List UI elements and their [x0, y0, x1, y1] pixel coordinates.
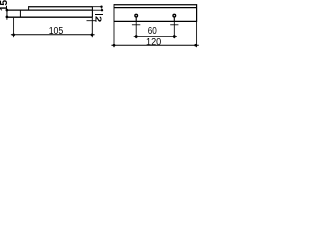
wire: outer rectangle [114, 4, 197, 6]
keyhole 1 [135, 14, 138, 17]
wire: bar top edge [7, 9, 93, 11]
wire: plate step edge [28, 6, 30, 10]
svg-text:2: 2 [94, 16, 103, 23]
keyhole 1 slot [135, 17, 137, 22]
wire: inner top line [114, 7, 197, 9]
wire: inner vertical edge [19, 10, 21, 17]
wire: profile left edge [6, 10, 8, 17]
wire: plate top edge [29, 6, 93, 8]
dimension 105 (horizontal, below left view) [11, 18, 96, 37]
wire: bar bottom edge [7, 16, 93, 18]
svg-text:120: 120 [146, 37, 162, 48]
left view: side profile of rail [7, 6, 93, 18]
dimension 120 (horizontal) [111, 22, 198, 47]
wire: profile right edge [91, 6, 93, 18]
right view: front plate [114, 4, 197, 22]
svg-text:60: 60 [148, 26, 157, 37]
svg-text:15: 15 [0, 0, 10, 11]
dimension 60 (horizontal) [132, 21, 179, 38]
keyhole 2 [173, 14, 176, 17]
keyhole 2 slot [173, 17, 175, 22]
dimension 15 (vertical, far left) [6, 9, 8, 20]
svg-text:105: 105 [49, 26, 64, 37]
dimension 2 (right of profile) [93, 7, 103, 15]
